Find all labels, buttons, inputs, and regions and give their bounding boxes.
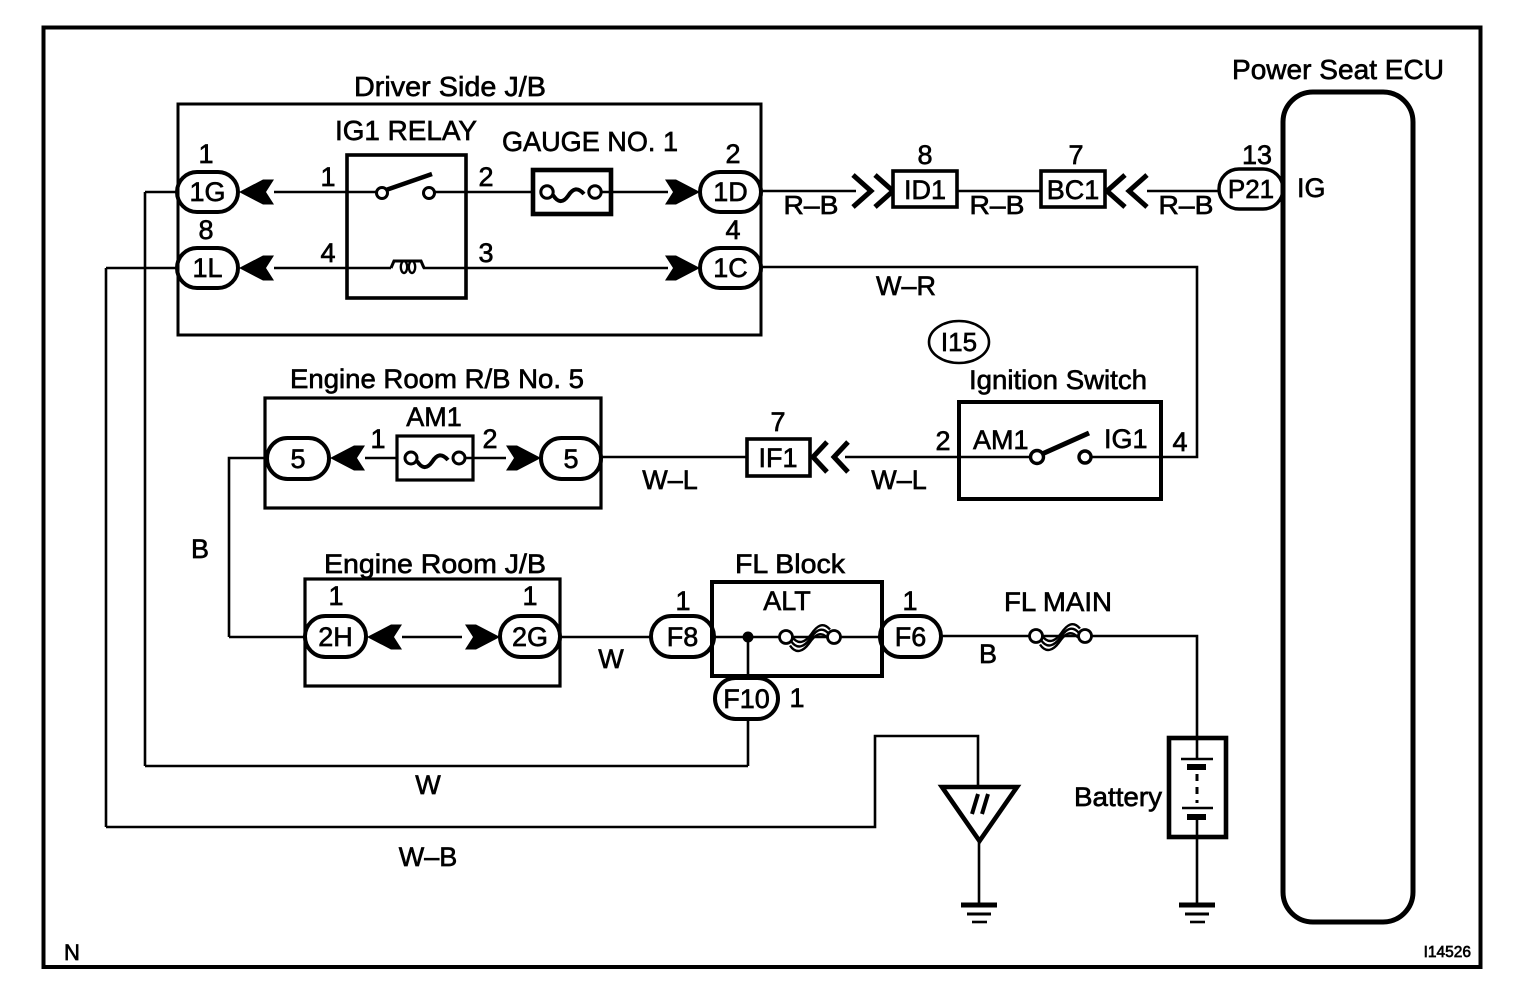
relay switch contact	[377, 174, 435, 199]
svg-text:I14526: I14526	[1424, 944, 1471, 961]
svg-text:8: 8	[917, 140, 932, 170]
relay K1 box	[347, 155, 466, 298]
svg-text:F10: F10	[723, 684, 770, 714]
svg-text:2H: 2H	[318, 622, 353, 652]
fuse AM1	[397, 436, 473, 480]
svg-text:2G: 2G	[512, 622, 548, 652]
svg-text:7: 7	[1068, 140, 1083, 170]
wire inside FL block	[714, 636, 880, 639]
connector 1L	[177, 248, 238, 288]
ignition switch contact	[959, 433, 1161, 464]
wire W-B bottom	[106, 736, 978, 827]
svg-text:5: 5	[563, 444, 578, 474]
wire 1D to ID1	[761, 190, 856, 193]
arrow at 2G	[465, 625, 500, 650]
wire 1G to relay	[274, 191, 376, 194]
junction block BC1	[1041, 171, 1105, 207]
ground symbol left	[961, 905, 997, 922]
Engine Room R/B box	[265, 398, 601, 508]
svg-text:W–B: W–B	[399, 842, 458, 872]
svg-text:1: 1	[789, 683, 804, 713]
svg-text:4: 4	[320, 238, 335, 268]
svg-text:ALT: ALT	[763, 586, 811, 616]
wire F10 down to W line	[747, 719, 750, 766]
svg-text:Power Seat ECU: Power Seat ECU	[1232, 54, 1444, 85]
Driver Side J/B box	[178, 104, 761, 335]
svg-text:2: 2	[935, 426, 950, 456]
wire AM1 fuse to 5 right	[465, 457, 506, 460]
wire RB5 left stub	[229, 458, 267, 637]
svg-text:B: B	[979, 639, 997, 669]
fuse GAUGE NO.1	[533, 170, 611, 214]
connector F8	[651, 616, 714, 657]
fusible link FL MAIN	[1030, 624, 1092, 650]
svg-text:BC1: BC1	[1047, 175, 1100, 205]
svg-text:13: 13	[1242, 140, 1272, 170]
arrow at 2H	[367, 625, 402, 650]
svg-text:1G: 1G	[189, 177, 225, 207]
connector 2H	[305, 616, 366, 657]
connector 5 left	[267, 438, 329, 479]
svg-text:1C: 1C	[713, 253, 748, 283]
chevrons into IF1	[813, 442, 848, 472]
wire ID1 to BC1	[957, 190, 1041, 193]
wire 5 to AM1 fuse	[365, 457, 410, 460]
svg-text:P21: P21	[1228, 174, 1274, 204]
svg-text:2: 2	[482, 424, 497, 454]
Power Seat ECU body U1	[1283, 92, 1413, 922]
connector F10	[715, 678, 778, 719]
wire gauge fuse to 1D	[601, 191, 668, 194]
svg-text:Driver Side J/B: Driver Side J/B	[354, 71, 546, 102]
wire relay to gauge fuse	[435, 191, 547, 194]
connector 1C	[700, 248, 761, 288]
svg-text:1: 1	[328, 581, 343, 611]
svg-text:2: 2	[725, 139, 740, 169]
connector 5 right	[541, 438, 601, 479]
svg-text:5: 5	[290, 444, 305, 474]
svg-text:F8: F8	[667, 622, 699, 652]
arrow at 5 left	[330, 446, 365, 471]
svg-text:R–B: R–B	[1159, 190, 1214, 220]
svg-text:AM1: AM1	[406, 402, 462, 432]
connector 1G	[177, 172, 238, 212]
svg-text:GAUGE NO. 1: GAUGE NO. 1	[502, 126, 678, 157]
svg-text:W–L: W–L	[871, 465, 927, 495]
svg-text:W: W	[598, 644, 624, 674]
battery BT1	[1169, 738, 1226, 837]
connector 1D	[700, 172, 761, 212]
ground symbol battery	[1179, 905, 1215, 922]
wire ignition to IF1	[845, 456, 959, 459]
svg-text:4: 4	[1172, 427, 1187, 457]
ground triangle II	[942, 787, 1017, 841]
svg-text:R–B: R–B	[784, 190, 839, 220]
svg-text:W–R: W–R	[876, 271, 936, 301]
wire 2G to F8	[560, 636, 653, 639]
connector 2G	[500, 616, 560, 657]
svg-text:B: B	[191, 534, 209, 564]
svg-text:Ignition Switch: Ignition Switch	[969, 365, 1147, 395]
svg-text:7: 7	[770, 407, 785, 437]
svg-text:Engine Room R/B No. 5: Engine Room R/B No. 5	[290, 364, 584, 394]
svg-text:IG1: IG1	[1104, 424, 1148, 454]
wire battery to ground	[1196, 837, 1199, 903]
svg-text:F6: F6	[895, 622, 927, 652]
chevrons into BC1	[1107, 175, 1147, 207]
ignition switch box S1	[959, 402, 1161, 499]
svg-text:3: 3	[478, 238, 493, 268]
wire IF1 to RB5	[601, 456, 747, 459]
svg-text:1: 1	[198, 139, 213, 169]
arrow at 1L	[239, 256, 274, 281]
wire W-B vertical left	[105, 268, 108, 827]
svg-text:1: 1	[902, 586, 917, 616]
wire triangle to ground	[978, 841, 981, 903]
wire 1L to left vertical	[106, 267, 177, 270]
svg-text:IG1 RELAY: IG1 RELAY	[335, 115, 477, 146]
junction block IF1	[747, 439, 810, 476]
svg-text:Engine Room J/B: Engine Room J/B	[324, 549, 546, 579]
svg-text:IF1: IF1	[758, 443, 797, 473]
svg-text:N: N	[64, 940, 80, 965]
connector F6	[880, 616, 941, 657]
wire FL block to F10	[747, 637, 750, 678]
svg-text:1: 1	[522, 581, 537, 611]
wire 1L to relay	[274, 267, 391, 270]
chevrons into ID1	[853, 175, 893, 207]
svg-text:1: 1	[370, 424, 385, 454]
svg-text:4: 4	[725, 215, 740, 245]
wire F6 to battery	[941, 636, 1197, 738]
arrow at 1D	[665, 180, 700, 205]
wire 1G to left vertical	[145, 191, 177, 194]
svg-text:R–B: R–B	[970, 190, 1025, 220]
svg-text:FL MAIN: FL MAIN	[1004, 587, 1112, 617]
wire relay pin3 to 1C	[423, 267, 668, 270]
wire W bottom	[145, 765, 748, 768]
Engine Room J/B box	[305, 579, 560, 686]
FL Block box	[712, 582, 882, 676]
arrow at 1C	[665, 256, 700, 281]
svg-text:1: 1	[675, 586, 690, 616]
fusible link ALT	[780, 625, 841, 651]
wire 1C to ignition (W-R)	[761, 267, 1197, 457]
svg-text:1L: 1L	[192, 253, 222, 283]
svg-text:1: 1	[320, 162, 335, 192]
svg-text:IG: IG	[1297, 173, 1326, 203]
svg-text:AM1: AM1	[973, 425, 1029, 455]
junction dot	[743, 632, 754, 643]
svg-text:W: W	[415, 770, 441, 800]
wire 2H to 2G	[402, 636, 462, 639]
wire BC1 to P21	[1147, 190, 1221, 193]
arrow at 5 right	[506, 446, 541, 471]
svg-text:Battery: Battery	[1074, 782, 1163, 812]
relay coil	[391, 261, 424, 273]
svg-text:8: 8	[198, 215, 213, 245]
junction block ID1	[893, 171, 957, 207]
wire W vertical left	[144, 192, 147, 766]
svg-text:W–L: W–L	[642, 465, 698, 495]
svg-text:ID1: ID1	[904, 175, 946, 205]
svg-text:2: 2	[478, 162, 493, 192]
svg-text:FL Block: FL Block	[735, 549, 846, 579]
connector I15	[929, 321, 989, 363]
arrow at 1G	[239, 180, 274, 205]
svg-text:1D: 1D	[713, 177, 748, 207]
svg-text:I15: I15	[941, 327, 977, 357]
connector P21	[1219, 169, 1283, 209]
wire to 2H	[229, 636, 305, 639]
